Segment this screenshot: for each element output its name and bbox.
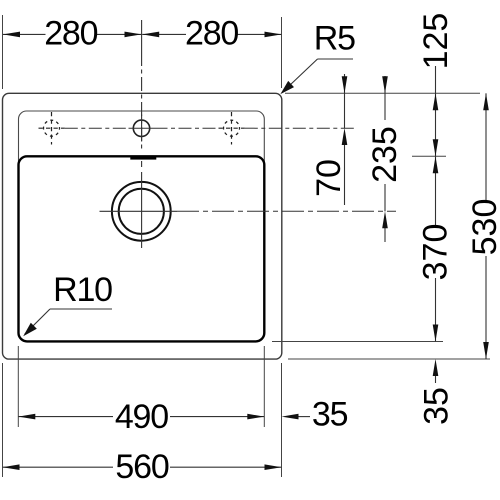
vertical center line (dash-dot) (141, 20, 143, 52)
extension line right y156 (412, 155, 446, 157)
svg-text:125: 125 (417, 13, 455, 70)
extension line right y341 (272, 341, 443, 343)
drain horizontal center line (dash-dot) (100, 210, 178, 212)
dimension 490 bottom: line and arrows (18, 416, 264, 418)
dimension 280 left: line and arrows (3, 33, 142, 35)
left optional tap hole (dashed circle) (44, 120, 60, 136)
svg-text:560: 560 (115, 448, 168, 486)
dimension 370 right: line and arrows (435, 156, 437, 341)
sink outer edge outline 560x530 (3, 93, 282, 359)
dimension 280 right: line and arrows (142, 33, 281, 35)
dimension 70 right: line and arrows (344, 74, 346, 205)
right optional tap hole crosshair (219, 112, 245, 145)
right optional tap hole (dashed circle) (224, 120, 240, 136)
svg-text:530: 530 (466, 199, 500, 256)
dimension 125 right: line and arrows (435, 66, 437, 156)
sink deck inner rim line (19, 111, 265, 341)
drain inner circle (119, 189, 164, 234)
dimension 235 right: line and arrows (384, 76, 386, 242)
svg-text:370: 370 (416, 224, 454, 281)
R5 leader line (282, 59, 353, 93)
svg-text:35: 35 (417, 387, 455, 425)
extension line right y359 (288, 358, 490, 360)
left optional tap hole crosshair (39, 112, 65, 145)
extension line top-right (281, 17, 283, 88)
extension line bottom-right x281.5 (281, 363, 283, 477)
dimension 35 bottom horizontal: arrow and line (282, 414, 299, 420)
dimension 530 right: line and arrows (485, 93, 487, 359)
extension line bottom x264 (263, 346, 265, 427)
extension line bottom-left x2.5 (2, 363, 4, 477)
dimension 35 right vertical: arrow and line (433, 359, 439, 376)
svg-text:70: 70 (310, 159, 348, 197)
svg-text:280: 280 (185, 15, 238, 53)
R10 leader line (25, 309, 112, 334)
center tap hole circle (133, 120, 149, 136)
svg-text:R10: R10 (53, 271, 112, 309)
extension line top-left (2, 15, 4, 89)
svg-text:R5: R5 (314, 20, 355, 58)
overflow slot mark (130, 156, 156, 160)
svg-text:235: 235 (366, 126, 404, 183)
R10 leader arrowhead (23, 323, 37, 337)
extension line right y93 (285, 92, 480, 94)
svg-text:490: 490 (115, 398, 168, 436)
extension line bottom x18 (17, 346, 19, 427)
dimension 560 bottom: line and arrows (3, 466, 282, 468)
bowl outline (bold) (19, 156, 265, 341)
svg-text:280: 280 (44, 14, 97, 52)
drain outer circle (112, 182, 171, 241)
svg-text:35: 35 (312, 395, 348, 433)
R5 leader arrowhead (280, 81, 294, 94)
tap holes horizontal center line (dash-dot) (65, 127, 354, 129)
